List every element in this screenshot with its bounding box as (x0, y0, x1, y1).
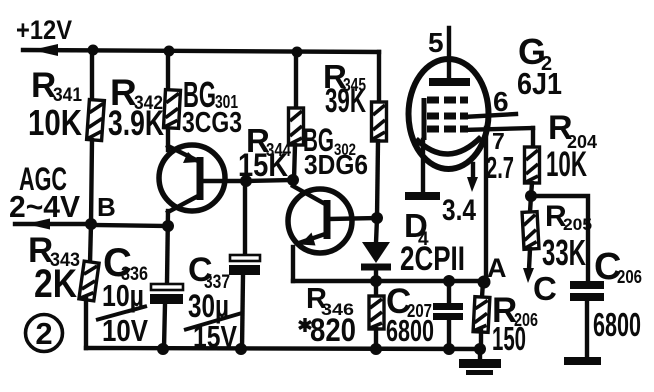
resistor R343 (79, 261, 99, 301)
label R341 (31, 66, 82, 106)
svg-text:B: B (97, 192, 116, 222)
node top junction R344 (292, 47, 303, 58)
wire R344 to node (294, 145, 295, 180)
label 15V (193, 319, 237, 354)
label C (533, 270, 557, 307)
tube grid row 3 (427, 126, 468, 133)
pin 7 lead (463, 128, 533, 130)
label 820 (310, 312, 356, 348)
label D4 (404, 207, 429, 250)
label 2.7 (486, 150, 514, 185)
svg-text:6800: 6800 (386, 313, 434, 348)
wire node B to collector branch (91, 225, 168, 226)
wire BG301 collector down (167, 211, 168, 283)
label 3DG6 (304, 149, 368, 180)
wire AGC lead (15, 222, 91, 226)
label 7 (492, 128, 505, 154)
label R344 (246, 122, 291, 160)
svg-text:150: 150 (492, 320, 526, 357)
svg-text:6: 6 (493, 86, 509, 117)
label 6800 C206 (593, 306, 641, 343)
svg-text:C: C (533, 270, 557, 307)
label R204 (548, 109, 597, 152)
node top junction R341 (88, 45, 99, 56)
label 10V (102, 313, 148, 348)
tube cathode arc (416, 137, 481, 154)
svg-text:+12V: +12V (16, 15, 72, 45)
wire pin7 down to node A (484, 128, 488, 281)
label BG301 (183, 74, 238, 115)
label A (487, 253, 507, 283)
label C207 (386, 282, 432, 321)
wire C337 branch (243, 182, 247, 255)
label 6J1 (517, 66, 562, 101)
wire base junction to R344 foot (246, 180, 293, 181)
transistor BG301 (159, 145, 246, 212)
node BG302 base (371, 212, 383, 224)
tube grid left connector (422, 98, 427, 140)
label 10K R204 (546, 145, 587, 184)
pin 5 lead (447, 28, 451, 80)
label R346 (306, 283, 354, 319)
label G2 (518, 31, 552, 75)
capacitor C207 (433, 281, 463, 349)
label 150 (492, 320, 526, 357)
vacuum tube G2 6J1 (409, 59, 489, 169)
svg-text:2.7: 2.7 (486, 150, 514, 185)
ground cathode (405, 192, 440, 200)
svg-text:A: A (487, 253, 507, 283)
resistor R346 (369, 281, 384, 349)
svg-text:2: 2 (35, 316, 52, 351)
wire pin7 corner to R204 (531, 128, 535, 148)
label R342 (110, 72, 163, 114)
label +12V (16, 15, 72, 45)
tube grid row 2 (427, 113, 468, 120)
svg-text:2K: 2K (34, 262, 77, 306)
resistor R205 (522, 212, 539, 250)
label 30u (188, 288, 229, 324)
wire R343 to bottom rail (84, 299, 88, 348)
wire junction to R205 (530, 196, 531, 212)
node R206 bottom (474, 343, 486, 355)
resistor R344 (289, 108, 304, 145)
wire R344 branch upper (294, 52, 298, 108)
node R204 R205 C206 (525, 190, 537, 202)
label B (97, 192, 116, 222)
label R205 (545, 200, 592, 234)
fraction slash C337 (184, 313, 242, 330)
label 6 (493, 86, 509, 117)
wire R341 branch upper (90, 50, 94, 100)
resistor R345 (372, 102, 387, 141)
node collector C336 junction (162, 220, 174, 232)
label 5 (428, 27, 444, 58)
node R344 foot / BG302 collector (287, 174, 299, 186)
svg-text:6800: 6800 (593, 306, 641, 343)
wire bottom ground rail (86, 348, 481, 349)
svg-text:5: 5 (428, 27, 444, 58)
star adjust mark (299, 318, 311, 332)
page marker circled 2 (26, 315, 63, 352)
label 10K (28, 102, 82, 143)
label 3.4 (442, 194, 476, 227)
wire R345 branch upper (377, 52, 381, 102)
label R343 (28, 231, 80, 271)
svg-text:2~4V: 2~4V (9, 189, 80, 224)
cathode lead (421, 140, 425, 192)
label 39K (325, 82, 366, 120)
resistor R206 (473, 282, 490, 349)
label 3.9K (108, 104, 164, 143)
wire R345 to BG302 base node (377, 141, 378, 218)
wire junction to C206 (531, 196, 588, 282)
svg-text:820: 820 (310, 312, 356, 348)
label C337 (188, 251, 230, 293)
capacitor C336 (150, 284, 183, 348)
wire emitter rail to node A (293, 279, 486, 283)
svg-text:6J1: 6J1 (517, 66, 562, 101)
svg-text:10K: 10K (28, 102, 82, 143)
label BG302 (303, 122, 356, 159)
label 2K (34, 262, 77, 306)
wire R204 to junction (531, 183, 532, 196)
arrow +12V feed (32, 44, 58, 56)
label R206 (492, 291, 538, 330)
wire R342 branch upper (166, 51, 170, 92)
svg-text:3DG6: 3DG6 (304, 149, 368, 180)
svg-text:10V: 10V (102, 313, 148, 348)
svg-text:33K: 33K (542, 232, 586, 273)
label C206 (594, 246, 642, 288)
node C336 bottom (157, 343, 169, 355)
transistor BG302 (288, 186, 378, 253)
arrow to C (523, 249, 534, 283)
label 3CG3 (182, 107, 242, 139)
wire BG302 emitter down (291, 247, 295, 281)
svg-text:10K: 10K (546, 145, 587, 184)
svg-text:3.4: 3.4 (442, 194, 476, 227)
ground below C206 (564, 357, 601, 365)
svg-text:2CPII: 2CPII (400, 240, 465, 278)
wire R342 to BG301 emitter (166, 129, 170, 150)
fraction slash C336 (96, 306, 147, 320)
svg-text:3CG3: 3CG3 (182, 107, 242, 139)
node diode foot (370, 275, 382, 287)
resistor R204 (525, 147, 540, 183)
node B (85, 218, 97, 230)
label R345 (323, 58, 366, 95)
label C336 (103, 241, 148, 285)
node C207 bottom (443, 343, 455, 355)
diode D4 (361, 242, 391, 281)
svg-text:3.9K: 3.9K (108, 104, 164, 143)
resistor R341 (87, 100, 105, 141)
svg-text:206: 206 (617, 267, 642, 287)
label 15K (238, 147, 288, 183)
capacitor C337 (229, 255, 260, 349)
node A (478, 276, 491, 289)
svg-text:15K: 15K (238, 147, 288, 183)
wire base node to diode (376, 218, 377, 243)
label 2~4V (9, 189, 80, 224)
node BG301 base / C337 junction (240, 175, 252, 187)
label 33K (542, 232, 586, 273)
svg-text:39K: 39K (325, 82, 366, 120)
pin 6 lead (463, 114, 516, 117)
resistor R342 (164, 90, 181, 129)
tube grid row 1 (427, 97, 468, 104)
wire node B down to R343 (90, 224, 91, 263)
node C207 top (443, 275, 455, 287)
arrow AGC pointing left (26, 219, 50, 230)
capacitor C206 (570, 281, 604, 358)
node C337 bottom (235, 343, 247, 355)
arrow test point 3.4 (467, 164, 478, 192)
label AGC (19, 161, 67, 197)
label 2CP11 (400, 240, 465, 278)
tube anode plate (429, 78, 470, 86)
node R346 bottom (370, 343, 382, 355)
wire R341 to node B (91, 140, 92, 224)
wire top +12V rail (23, 50, 379, 52)
label 10u (102, 278, 144, 313)
label 6800 C207 (386, 313, 434, 348)
ground below R206 (459, 349, 501, 375)
svg-text:15V: 15V (193, 319, 237, 354)
node top junction R342 (164, 46, 175, 57)
